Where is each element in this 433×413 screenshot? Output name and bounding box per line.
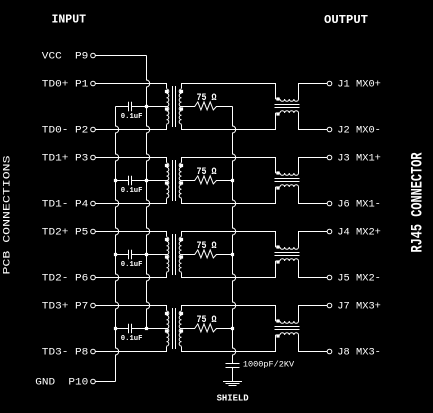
svg-text:J5 MX2-: J5 MX2-	[337, 272, 381, 284]
svg-text:0.1uF: 0.1uF	[121, 187, 143, 195]
resistor R4 75 ohm	[182, 324, 233, 332]
capacitor C5 1000pF/2KV plates	[226, 364, 240, 368]
choke L2 core	[275, 179, 300, 182]
choke L3 core	[275, 253, 300, 256]
svg-text:75 Ω: 75 Ω	[197, 167, 217, 178]
transformer T3 secondary winding	[179, 237, 181, 272]
transformer T3 secondary polarity dots	[180, 238, 183, 241]
transformer T1 secondary polarity dots	[180, 90, 183, 93]
svg-text:J8 MX3-: J8 MX3-	[337, 346, 381, 358]
svg-text:GND P10: GND P10	[35, 376, 88, 388]
choke L4 top winding	[276, 320, 281, 322]
pin P3 TD1+	[42, 152, 95, 164]
choke L1 top winding dot	[276, 97, 279, 100]
wire T2 primary center tap	[147, 180, 167, 182]
svg-text:J7 MX3+: J7 MX3+	[337, 300, 381, 312]
transformer T2 primary polarity dots	[165, 164, 168, 167]
transformer T4 core	[173, 308, 176, 349]
transformer T4 secondary winding	[179, 311, 181, 346]
svg-text:TD1+ P3: TD1+ P3	[42, 152, 89, 164]
transformer T4 secondary polarity dots	[180, 312, 183, 315]
choke L3 bottom winding dot	[276, 260, 279, 263]
transformer T3 core	[173, 234, 176, 275]
resistor R3 75 ohm	[182, 250, 233, 258]
pin P2 TD0-	[42, 124, 95, 136]
pin P8 TD3-	[42, 346, 95, 358]
wire TD1- to transformer T2 primary bottom	[95, 199, 166, 204]
wire choke L2 top to output	[299, 158, 328, 174]
wire choke L1 bottom to output	[299, 113, 328, 130]
pin J6 MX1-	[327, 198, 381, 210]
svg-text:VCC P9: VCC P9	[42, 50, 89, 62]
junction VCC bus / T2 center tap	[145, 179, 148, 182]
svg-text:TD3+ P7: TD3+ P7	[42, 300, 89, 312]
wire TD0+ to transformer T1 primary top	[95, 84, 166, 89]
pin P6 TD2-	[42, 272, 95, 284]
wire TD0- to transformer T1 primary bottom	[95, 125, 166, 130]
net GND vertical bus with wire hops	[116, 107, 119, 382]
wire choke L1 top to output	[299, 84, 328, 100]
pin J7 MX3+	[327, 300, 381, 312]
wire T3 primary center tap	[147, 254, 167, 256]
svg-text:TD0- P2: TD0- P2	[42, 124, 89, 136]
svg-text:TD2+ P5: TD2+ P5	[42, 226, 89, 238]
choke L4 top winding dot	[276, 319, 279, 322]
choke L2 top winding dot	[276, 171, 279, 174]
capacitor C2 0.1uF plates	[129, 176, 132, 186]
net shield termination bus with wire hops	[233, 107, 236, 364]
svg-text:TD3- P8: TD3- P8	[42, 346, 89, 358]
wire VCC P9 to bus	[95, 55, 146, 57]
transformer T1 core	[173, 86, 176, 127]
svg-text:J2 MX0-: J2 MX0-	[337, 124, 381, 136]
wire C1 leads	[116, 106, 147, 108]
pin P7 TD3+	[42, 300, 95, 312]
wire C2 leads	[116, 180, 147, 182]
transformer T2 secondary winding	[179, 163, 181, 198]
svg-text:RJ45 CONNECTOR: RJ45 CONNECTOR	[409, 152, 427, 252]
svg-text:75 Ω: 75 Ω	[197, 315, 217, 326]
transformer T3 primary winding	[167, 237, 169, 272]
svg-text:1000pF/2KV: 1000pF/2KV	[243, 360, 295, 370]
junction VCC bus / T3 center tap	[145, 253, 148, 256]
transformer T2 core	[173, 160, 176, 201]
svg-text:TD0+ P1: TD0+ P1	[42, 78, 89, 90]
junction VCC bus / T4 center tap	[145, 327, 148, 330]
wire TD2+ to transformer T3 primary top	[95, 232, 166, 237]
wire TD3+ to transformer T4 primary top	[95, 306, 166, 311]
capacitor C3 0.1uF plates	[129, 250, 132, 260]
wire T4 secondary top to choke L4	[182, 306, 276, 322]
choke L1 bottom winding	[276, 112, 281, 114]
transformer T2 secondary polarity dots	[180, 164, 183, 167]
transformer T1 primary polarity dots	[165, 90, 168, 93]
transformer T3 primary polarity dots	[165, 238, 168, 241]
svg-text:J1 MX0+: J1 MX0+	[337, 78, 381, 90]
choke L3 top winding	[276, 246, 281, 248]
svg-text:0.1uF: 0.1uF	[121, 335, 143, 343]
wire GND P10 to bus	[95, 381, 115, 383]
svg-text:J3 MX1+: J3 MX1+	[337, 152, 381, 164]
choke L3 bottom winding	[276, 260, 281, 262]
svg-text:TD2- P6: TD2- P6	[42, 272, 89, 284]
svg-text:TD1- P4: TD1- P4	[42, 198, 89, 210]
pin P9 VCC	[42, 50, 95, 62]
wire choke L4 bottom to output	[299, 335, 328, 352]
junction GND bus / C3	[114, 253, 117, 256]
pin P1 TD0+	[42, 78, 95, 90]
resistor R1 75 ohm	[182, 102, 233, 110]
junction GND bus / C4	[114, 327, 117, 330]
choke L2 bottom winding	[276, 186, 281, 188]
wire T2 secondary bottom to choke L2	[182, 187, 276, 204]
wire choke L2 bottom to output	[299, 187, 328, 204]
junction VCC bus / T1 center tap	[145, 105, 148, 108]
pin P5 TD2+	[42, 226, 95, 238]
pin P10 GND	[35, 376, 95, 388]
transformer T2 primary winding	[167, 163, 169, 198]
wire TD1+ to transformer T2 primary top	[95, 158, 166, 163]
svg-text:75 Ω: 75 Ω	[197, 93, 217, 104]
wire T3 secondary bottom to choke L3	[182, 261, 276, 278]
wire T1 secondary bottom to choke L1	[182, 113, 276, 130]
wire C3 leads	[116, 254, 147, 256]
svg-text:0.1uF: 0.1uF	[121, 113, 143, 121]
choke L4 bottom winding dot	[276, 334, 279, 337]
wire T1 primary center tap	[147, 106, 167, 108]
choke L3 top winding dot	[276, 245, 279, 248]
choke L2 top winding	[276, 172, 281, 174]
pin J5 MX2-	[327, 272, 381, 284]
transformer T4 primary polarity dots	[165, 312, 168, 315]
transformer T1 primary winding	[167, 89, 169, 124]
net VCC vertical bus with wire hops	[147, 56, 150, 329]
capacitor C1 0.1uF plates	[129, 102, 132, 112]
svg-text:OUTPUT: OUTPUT	[324, 13, 368, 27]
wire C4 leads	[116, 328, 147, 330]
pin J1 MX0+	[327, 78, 381, 90]
svg-text:SHIELD: SHIELD	[217, 393, 249, 404]
junction GND bus / C2	[114, 179, 117, 182]
svg-text:75 Ω: 75 Ω	[197, 241, 217, 252]
wire T4 secondary bottom to choke L4	[182, 335, 276, 352]
choke L2 bottom winding dot	[276, 186, 279, 189]
transformer T4 primary winding	[167, 311, 169, 346]
choke L4 core	[275, 327, 300, 330]
svg-text:INPUT: INPUT	[52, 14, 87, 27]
junction shield bus / R3	[231, 253, 234, 256]
pin J2 MX0-	[327, 124, 381, 136]
svg-text:J6 MX1-: J6 MX1-	[337, 198, 381, 210]
wire choke L3 bottom to output	[299, 261, 328, 278]
pin J8 MX3-	[327, 346, 381, 358]
junction shield bus / R2	[231, 179, 234, 182]
wire T3 secondary top to choke L3	[182, 232, 276, 248]
wire T4 primary center tap	[147, 328, 167, 330]
ground symbol SHIELD	[223, 382, 242, 386]
pin J4 MX2+	[327, 226, 381, 238]
svg-text:PCB CONNECTIONS: PCB CONNECTIONS	[3, 156, 14, 275]
wire T1 secondary top to choke L1	[182, 84, 276, 100]
choke L4 bottom winding	[276, 334, 281, 336]
capacitor C4 0.1uF plates	[129, 324, 132, 334]
choke L1 top winding	[276, 98, 281, 100]
pin J3 MX1+	[327, 152, 381, 164]
choke L1 bottom winding dot	[276, 112, 279, 115]
svg-text:0.1uF: 0.1uF	[121, 261, 143, 269]
wire C5 to shield ground	[232, 368, 234, 382]
wire T2 secondary top to choke L2	[182, 158, 276, 174]
transformer T1 secondary winding	[179, 89, 181, 124]
wire choke L3 top to output	[299, 232, 328, 248]
resistor R2 75 ohm	[182, 176, 233, 184]
choke L1 core	[275, 105, 300, 108]
svg-text:J4 MX2+: J4 MX2+	[337, 226, 381, 238]
wire choke L4 top to output	[299, 306, 328, 322]
pin P4 TD1-	[42, 198, 95, 210]
wire TD2- to transformer T3 primary bottom	[95, 273, 166, 278]
wire TD3- to transformer T4 primary bottom	[95, 347, 166, 352]
junction shield bus / R4	[231, 327, 234, 330]
